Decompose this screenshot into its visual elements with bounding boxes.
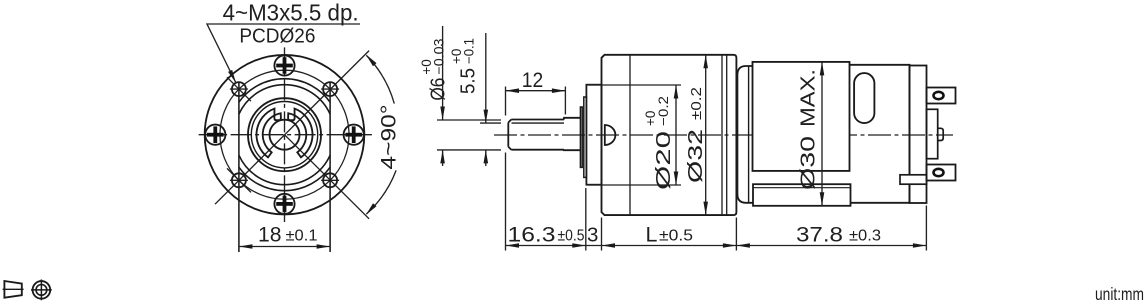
screw bottom (274, 194, 294, 214)
screw right (344, 125, 364, 145)
hole M3 lower-right (321, 173, 339, 187)
motor bottom block (753, 184, 851, 206)
arc step A top (truncated by 18mm flats) (239, 79, 330, 102)
dimension d30 MAX. (797, 62, 825, 206)
svg-text:4~90°: 4~90° (377, 105, 401, 170)
svg-text:3: 3 (587, 224, 598, 247)
plate d16 (584, 97, 587, 177)
svg-text:Ø20: Ø20 (652, 131, 675, 190)
svg-text:±0.5: ±0.5 (659, 228, 693, 245)
rear bearing boss (938, 128, 944, 140)
gearbox seam rear 1 (721, 55, 723, 215)
svg-text:±0.3: ±0.3 (849, 228, 881, 245)
hole M3 lower-left (230, 173, 248, 187)
svg-text:−0.2: −0.2 (656, 96, 671, 126)
shaft flat line (5.5) (512, 122, 565, 124)
svg-text:12: 12 (522, 68, 544, 92)
motor band (case middle) (753, 62, 850, 171)
rear bracket (927, 109, 938, 158)
vent slot (854, 73, 874, 123)
svg-text:37.8: 37.8 (796, 223, 843, 247)
svg-text:Ø32: Ø32 (684, 129, 707, 183)
terminal top (927, 88, 956, 104)
dimension 5.5 +0/-0.1 (449, 33, 501, 166)
svg-text:16.3: 16.3 (508, 223, 556, 247)
wing right (output dog) (288, 109, 312, 158)
gearbox seam rear 2 (726, 55, 728, 215)
bottom extension lines (506, 153, 927, 251)
screw top (274, 55, 294, 75)
end cap step block (900, 175, 927, 184)
boss outer circle (248, 98, 321, 171)
flange outer circle (205, 55, 365, 215)
wing left (output dog) (257, 109, 281, 158)
wire horizontal centerline (199, 134, 372, 136)
dimension d32 +-0.2 (684, 55, 708, 215)
node upper-left hole diagonal tick (227, 77, 251, 101)
arrows 16.3 (506, 243, 520, 248)
hole M3 upper-right (321, 82, 339, 96)
svg-text:18: 18 (258, 223, 282, 247)
terminal bottom (927, 165, 956, 181)
svg-text:4~M3x5.5 dp.: 4~M3x5.5 dp. (223, 0, 359, 26)
end cap (910, 66, 927, 204)
wire vertical centerline (284, 47, 286, 222)
extension line right (18 dim / through holes / flat edge) (329, 82, 331, 252)
svg-text:Ø30: Ø30 (797, 136, 820, 190)
dimension d20 +0/-0.2 (588, 85, 681, 190)
svg-text:L: L (646, 223, 658, 247)
svg-text:−0.03: −0.03 (431, 39, 446, 75)
svg-text:PCDØ26: PCDØ26 (239, 25, 315, 48)
terminal bottom hole (934, 169, 944, 176)
note leader arrowhead (228, 70, 238, 84)
svg-text:−0.1: −0.1 (462, 38, 477, 64)
dimension d6 +0/-0.03 (419, 26, 501, 166)
dimension 18 +-0.1 (239, 223, 330, 249)
extension line left (18 dim / through holes / flat edge) (238, 82, 240, 252)
gearbox seam front (629, 55, 631, 215)
arc step B top (pilot dia 20) (239, 85, 330, 114)
screw left (205, 125, 225, 145)
gearbox front bearing bump (605, 125, 616, 145)
frustum side view (4, 281, 21, 298)
hole M3 upper-left (230, 82, 248, 96)
gearbox body d32 (602, 55, 737, 215)
dimension arc 4~90deg (366, 55, 396, 214)
svg-text:5.5: 5.5 (457, 68, 480, 94)
motor flange-can seam (748, 67, 750, 203)
svg-text:unit:mm: unit:mm (1095, 284, 1144, 304)
note leader line (207, 24, 360, 83)
shaft (d6) (508, 120, 564, 150)
dimension 12 (506, 68, 566, 116)
wire main centerline (494, 134, 953, 136)
svg-text:±0.2: ±0.2 (689, 87, 705, 120)
symbol circle view (31, 280, 52, 301)
frustum centerline (3, 288, 24, 290)
svg-text:MAX.: MAX. (797, 69, 820, 127)
pilot d20 (586, 85, 601, 185)
bottom dimension line (506, 245, 927, 247)
svg-text:Ø6: Ø6 (426, 78, 449, 101)
svg-text:±0.1: ±0.1 (286, 228, 318, 245)
arrows 37.8 (736, 243, 750, 248)
arrows L (602, 243, 616, 248)
node anti-diagonal 45deg line (upper-right to lower-left) (215, 51, 369, 205)
shaft collar (564, 118, 581, 150)
bolt circle PCD26 (220, 70, 349, 199)
arc step B bottom (239, 155, 330, 184)
boss inner circle (251, 102, 317, 168)
node lower-right 45deg radial line (285, 135, 370, 219)
motor bottom block inner line (753, 187, 851, 189)
svg-text:±0.5: ±0.5 (558, 228, 585, 245)
arc step A bottom (239, 167, 330, 190)
motor can (746, 65, 910, 203)
shaft circle (270, 120, 300, 150)
node lower-left hole diagonal tick (227, 168, 251, 192)
terminal top hole (934, 92, 944, 99)
motor flange (737, 66, 753, 203)
plate d12 (580, 107, 582, 167)
